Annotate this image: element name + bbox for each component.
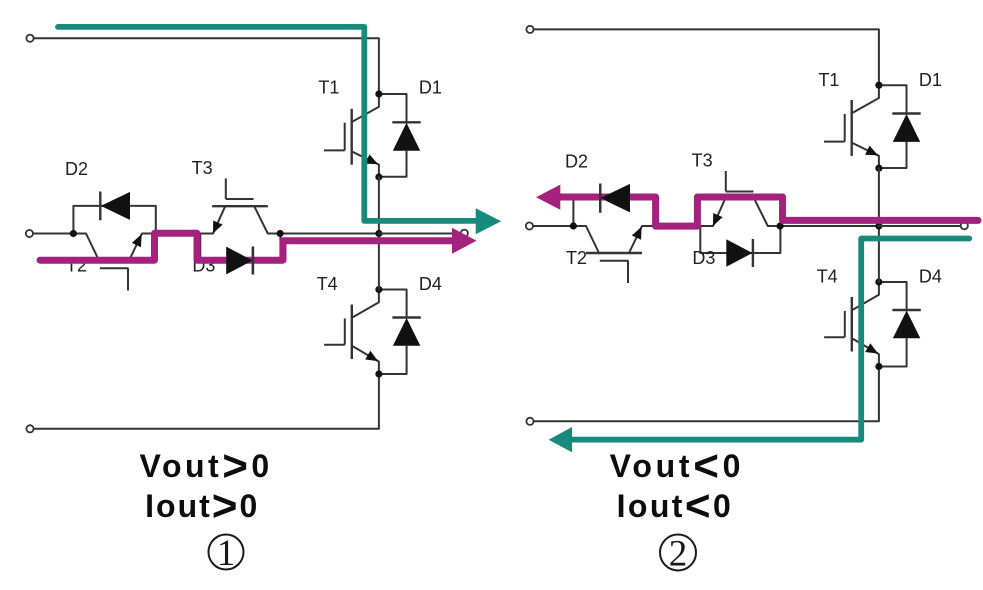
svg-text:D2: D2 [565,151,588,171]
svg-text:1: 1 [217,533,236,574]
wire: input to node A [533,225,573,227]
wire: node B to T3 [656,225,713,227]
diode D2 [101,192,130,220]
node: T1 collector [875,82,882,89]
svg-text:Vout<0: Vout<0 [610,442,744,491]
left circuit: DC- terminal [26,425,33,432]
node: T4 collector [875,278,882,285]
diode D3 redrawn over path (left) [226,247,253,275]
current path: teal (through T1), left circuit [58,27,479,221]
diode D1 [379,94,421,177]
transistor T4 (right) (IGBT) [824,282,879,367]
wire: D3 loop [700,226,780,253]
svg-text:T1: T1 [818,70,839,90]
svg-text:T4: T4 [817,267,838,287]
wire: T1 to phase node [378,177,380,234]
current path: teal (through T4), right circuit [572,239,969,440]
transistor T4 (IGBT) [324,290,379,375]
wire: DC- rail to T4 [34,374,379,429]
svg-text:Iout>0: Iout>0 [145,482,259,531]
svg-text:2: 2 [669,534,688,575]
circled number 1 (left) [209,533,244,574]
transistor T1 (IGBT) [324,94,379,177]
transistor T2 (IGBT) [73,234,155,291]
node: T1 emitter [375,173,382,180]
wire: T3 to phase node [268,233,379,235]
wire: node B to T3 [156,233,213,235]
wire: D2 loop [73,206,155,234]
node: T4 collector [375,286,382,293]
diode D3 [252,247,254,275]
left circuit: output terminal [461,230,468,237]
wire: T3 to phase node [768,225,879,227]
wire: phase node to T4 [878,226,880,282]
svg-text:T2: T2 [566,248,587,268]
node B [652,222,659,229]
svg-text:T3: T3 [692,150,713,170]
diode D2 redrawn over path (right) [600,184,630,213]
transistor T3 (IGBT) [212,179,268,234]
current path arrow: teal, right circuit [549,427,573,452]
diode D2 (right) [599,184,601,213]
current path arrow: magenta, left circuit [452,228,477,254]
left circuit: DC+ terminal [26,35,33,42]
node: T1 emitter [875,165,882,172]
node: T1 collector [375,90,382,97]
svg-text:D1: D1 [419,78,442,98]
node A [70,230,77,237]
diode D4 (right) [879,282,921,367]
svg-text:D4: D4 [919,267,942,287]
current path arrow: magenta, right circuit [536,185,560,210]
left circuit: AC input terminal [26,230,33,237]
wire: DC- rail to T4 [534,367,879,422]
diode D2 (right) [601,184,630,212]
right circuit: DC+ terminal [526,26,533,33]
right circuit: DC- terminal [526,418,533,425]
wire: T1 to phase node [878,168,880,226]
diode D3 (right) [726,239,752,267]
wire: D2 loop [573,198,655,226]
right circuit: output terminal [961,222,968,229]
svg-text:Iout<0: Iout<0 [617,482,734,531]
svg-text:D2: D2 [65,159,88,179]
svg-text:T1: T1 [318,78,339,98]
diode D3 [226,247,252,275]
right circuit: AC input terminal [526,222,533,229]
wire: D3 loop [200,234,280,261]
wire: phase node to T4 [378,234,380,290]
svg-text:Vout>0: Vout>0 [139,442,272,491]
node D [277,230,284,237]
svg-text:D3: D3 [692,248,715,268]
node B [152,230,159,237]
diode D4 [379,290,421,375]
current path: magenta (through T2 and D3), left circuit [40,233,455,260]
node: T4 emitter [375,370,382,377]
wire: DC+ rail to T1 [34,38,379,94]
node D [777,222,784,229]
transistor T1 (right) (IGBT) [824,85,879,168]
diode D3 (right) [752,239,754,267]
wire: phase node to output [879,225,961,227]
phase node [875,222,882,229]
wire: input to node A [33,233,73,235]
current path arrow: teal, left circuit [476,208,502,234]
svg-text:T3: T3 [192,158,213,178]
node A [570,222,577,229]
transistor T2 (right) (IGBT) [573,226,655,283]
diode D1 (right) [879,85,921,168]
svg-text:T4: T4 [317,274,338,294]
svg-text:D1: D1 [919,70,942,90]
current path: magenta (through T3 and D2), right circuit [558,197,978,226]
transistor T3 (right) (IGBT) [712,171,768,226]
phase node [375,230,382,237]
circled number 2 (right) [660,534,696,575]
node: T4 emitter [875,363,882,370]
wire: phase node to output [379,233,461,235]
wire: DC+ rail to T1 [534,29,879,85]
diode D2 [99,192,101,221]
svg-text:D4: D4 [419,274,442,294]
